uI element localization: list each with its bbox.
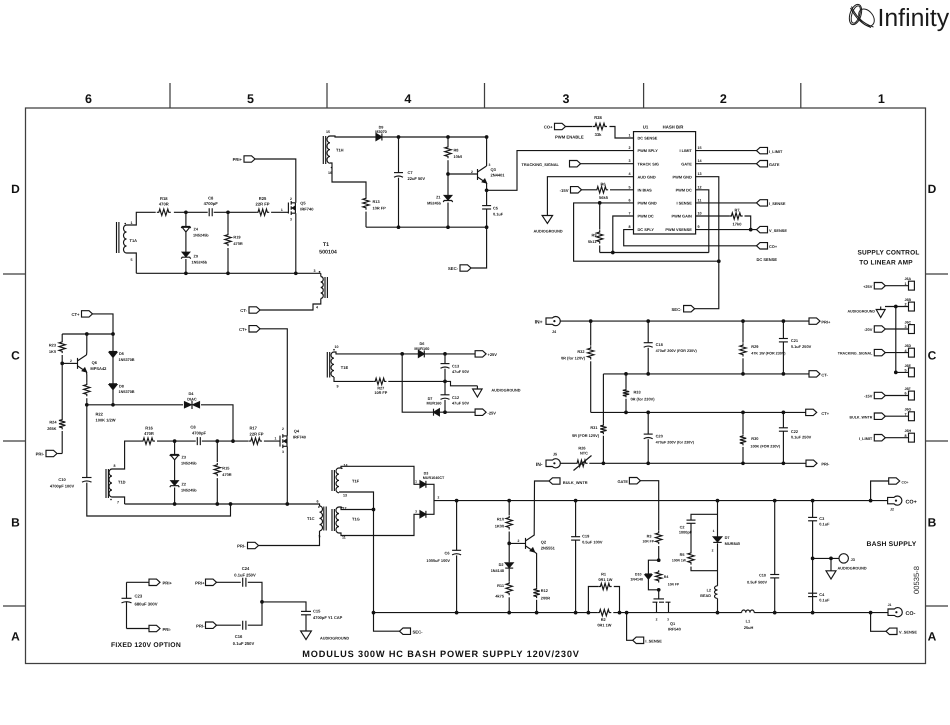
diode D7 MUR160	[434, 409, 440, 416]
svg-text:16: 16	[328, 171, 332, 175]
svg-text:GATE: GATE	[769, 162, 780, 167]
transformer winding T1F	[336, 468, 339, 493]
zener Z4 1N5245b	[185, 212, 187, 226]
svg-text:J6E: J6E	[905, 364, 912, 368]
svg-text:4k75: 4k75	[495, 594, 504, 599]
svg-text:R30: R30	[751, 436, 758, 441]
svg-text:PRI+: PRI+	[821, 320, 831, 325]
wire R10 to Q2 base	[509, 542, 525, 544]
svg-text:5: 5	[131, 258, 133, 262]
svg-text:3: 3	[290, 217, 292, 221]
doubler bus 1	[603, 373, 809, 375]
svg-text:-25V: -25V	[488, 410, 497, 415]
capacitor C6 1000uF 100V	[456, 501, 458, 551]
svg-text:PRI-: PRI-	[821, 462, 830, 467]
connector J6G	[909, 412, 915, 421]
svg-text:BEAD: BEAD	[700, 594, 711, 598]
svg-text:C2: C2	[680, 526, 685, 530]
connector tag I_SENSE (U1)	[757, 200, 768, 206]
diode D9 M3070	[376, 134, 382, 141]
capacitor C19 0.5uF 100V	[575, 501, 577, 537]
svg-text:I_LIMIT: I_LIMIT	[859, 436, 873, 441]
svg-text:7: 7	[628, 212, 630, 216]
MOSFET Q4 IRF740	[279, 436, 281, 447]
svg-text:C23: C23	[135, 594, 143, 599]
svg-text:22uF 50V: 22uF 50V	[408, 176, 426, 181]
wire R6 to U1 pin5	[610, 189, 634, 191]
svg-text:1: 1	[131, 221, 133, 225]
resistor R16 470R	[141, 438, 155, 444]
svg-text:12: 12	[698, 185, 702, 189]
border frame	[3, 83, 948, 664]
svg-text:J6A: J6A	[905, 277, 912, 281]
resistor R9 5k11	[599, 203, 601, 230]
wire R18 to C8	[174, 211, 208, 213]
wire R17 to Q4 gate	[264, 440, 280, 442]
svg-text:C: C	[928, 349, 937, 363]
svg-text:AUDIOGROUND: AUDIOGROUND	[847, 310, 875, 314]
connector tag V_SENSE (U1)	[757, 226, 768, 232]
svg-text:MUR160: MUR160	[427, 402, 442, 406]
svg-text:SUPPLY CONTROL: SUPPLY CONTROL	[857, 250, 919, 257]
svg-text:CT+: CT+	[239, 327, 248, 332]
svg-text:T1H: T1H	[336, 148, 344, 153]
connector tag CT+ to Q4 drain	[249, 326, 260, 332]
svg-text:PWM GND: PWM GND	[673, 174, 692, 179]
wire U1 pin15 to I_LIMIT	[696, 150, 757, 152]
svg-text:2N4401: 2N4401	[491, 173, 506, 178]
svg-text:GATE: GATE	[681, 161, 692, 166]
svg-text:CO-: CO-	[906, 611, 916, 617]
svg-text:0.1uF: 0.1uF	[819, 522, 830, 527]
wire R25 to Q5 gate	[271, 211, 288, 213]
connector J1 CO-	[869, 611, 873, 615]
svg-text:SEC-: SEC-	[413, 629, 424, 634]
svg-text:PRI-: PRI-	[237, 544, 246, 549]
svg-text:4700pF 100V: 4700pF 100V	[50, 483, 75, 488]
svg-text:CO+: CO+	[902, 480, 909, 484]
resistor R33 0R	[625, 374, 627, 389]
connector tag CO+ (PWM enable)	[555, 123, 566, 129]
capacitor C8 4700pF	[209, 208, 212, 216]
resistor R17 22R FP	[249, 438, 262, 444]
connector tag I_SENSE (rail)	[633, 637, 644, 643]
resistor R23 1K0	[61, 334, 63, 340]
connector tag PRI- (option)	[149, 625, 160, 631]
connector tag -20V	[874, 326, 885, 332]
svg-text:Z1: Z1	[436, 196, 440, 200]
resistor R25 22R FP	[256, 209, 269, 215]
diode D8 1N5370B	[109, 383, 117, 385]
connector tag BULK_WNTR	[874, 413, 885, 419]
ground audioground (J6B)	[880, 307, 882, 310]
svg-text:J6D: J6D	[905, 344, 912, 348]
svg-text:0R1 1W: 0R1 1W	[597, 623, 611, 628]
svg-text:R5: R5	[680, 553, 685, 557]
svg-text:1: 1	[713, 529, 715, 533]
wire C8 to R25	[214, 211, 256, 213]
svg-text:10: 10	[335, 345, 339, 349]
svg-text:MUR160: MUR160	[414, 347, 429, 351]
resistor R29 47K 1W	[742, 321, 744, 343]
svg-text:BULK_WNTR: BULK_WNTR	[563, 480, 588, 485]
svg-text:0.1uF 250V: 0.1uF 250V	[791, 435, 812, 440]
svg-text:10R FP: 10R FP	[373, 206, 387, 211]
wire BULK_WNTR to J6G	[885, 415, 908, 417]
svg-text:AUDIOGROUND: AUDIOGROUND	[320, 636, 349, 640]
svg-text:C10: C10	[58, 477, 66, 482]
svg-text:D9: D9	[379, 126, 384, 130]
svg-text:R17: R17	[249, 426, 257, 431]
connector J2 CO+	[871, 500, 888, 502]
wire PRI- to C16	[217, 624, 241, 626]
svg-text:R28: R28	[594, 115, 602, 120]
resistor R11 4k75	[506, 581, 512, 595]
svg-text:R19: R19	[233, 234, 241, 239]
svg-text:Q4: Q4	[294, 428, 300, 433]
svg-text:C24: C24	[242, 566, 250, 571]
svg-text:CT+: CT+	[821, 411, 829, 416]
wire R27 to audioground node	[388, 380, 445, 382]
svg-text:BASH SUPPLY: BASH SUPPLY	[867, 541, 917, 548]
svg-text:PRI+: PRI+	[195, 581, 205, 586]
wire IN- line	[589, 462, 806, 464]
svg-text:TO LINEAR AMP: TO LINEAR AMP	[859, 260, 913, 267]
svg-text:TRACKING_SIGNAL: TRACKING_SIGNAL	[838, 352, 873, 356]
capacitor C24 0.1uF 250V	[243, 578, 246, 587]
svg-text:T1: T1	[323, 242, 329, 248]
svg-text:U1: U1	[643, 125, 649, 130]
wire T1F pin14 to D3	[339, 466, 420, 484]
svg-text:D7: D7	[428, 397, 433, 401]
svg-text:Q2: Q2	[541, 540, 547, 545]
svg-text:2: 2	[518, 539, 520, 543]
svg-text:1N5370B: 1N5370B	[119, 358, 135, 362]
connector J4 IN+	[546, 317, 560, 326]
wire Q2 collector to BULK_WNTR	[534, 481, 549, 535]
connector tag -15V	[874, 392, 885, 398]
wire Q4 source to rail	[286, 446, 288, 504]
svg-text:2: 2	[628, 146, 630, 150]
svg-text:J6F: J6F	[905, 387, 912, 391]
wire R7 to pin9 net	[745, 216, 751, 230]
wire T1G pin12 center tap	[339, 507, 374, 510]
wire TRACKING_SIGNAL to J6D	[885, 352, 908, 354]
svg-text:1N5245b: 1N5245b	[181, 461, 197, 465]
connector tag PRI- (row C left)	[46, 450, 57, 456]
svg-text:1: 1	[281, 208, 283, 212]
svg-text:C13: C13	[452, 363, 460, 368]
bottom rail row D	[136, 272, 320, 274]
resistor R4 10R FP (gate)	[656, 570, 662, 582]
wire T1C pin5 to PRI-	[259, 531, 320, 546]
resistor R32 0R	[590, 321, 592, 346]
svg-text:IN-: IN-	[536, 462, 543, 468]
resistor R10 1K00	[508, 501, 510, 515]
svg-text:500104: 500104	[319, 250, 337, 256]
capacitor C8 4700pF (row B)	[197, 437, 200, 445]
svg-text:2: 2	[720, 92, 727, 106]
svg-text:PRI-: PRI-	[36, 452, 45, 457]
svg-text:C12: C12	[452, 395, 460, 400]
connector tag PRI+ (option)	[149, 579, 160, 585]
svg-text:R25: R25	[259, 196, 267, 201]
resistor R27 10R FP	[373, 378, 386, 384]
svg-text:L2: L2	[707, 588, 711, 592]
svg-text:IRF740: IRF740	[293, 434, 307, 439]
svg-text:AUD GND: AUD GND	[638, 174, 656, 179]
wire T1A pin5 to bottom rail	[127, 253, 137, 273]
wire CT+ down to Q4 drain	[260, 329, 287, 430]
svg-text:0.1uF 250V: 0.1uF 250V	[233, 641, 255, 646]
svg-text:4700pF: 4700pF	[204, 201, 219, 206]
svg-text:PWM DC: PWM DC	[638, 214, 654, 219]
wire U1 pin3 to TRACKING_SIGNAL	[581, 163, 634, 165]
ground audioground (C15)	[301, 631, 312, 640]
wire IN+ line	[561, 320, 810, 322]
svg-text:IRF740: IRF740	[300, 207, 314, 212]
svg-text:100K (FOR 230V): 100K (FOR 230V)	[750, 445, 780, 449]
svg-text:11: 11	[698, 198, 702, 202]
svg-text:-15V: -15V	[560, 188, 569, 193]
svg-text:10R FP: 10R FP	[668, 583, 680, 587]
svg-text:1N4148: 1N4148	[630, 577, 643, 581]
svg-text:3: 3	[563, 92, 570, 106]
capacitor C16 0.1uF 250V	[243, 621, 246, 630]
connector tag SEC- (U1)	[684, 306, 695, 312]
diode D2 1N4148	[508, 543, 510, 562]
svg-text:3: 3	[415, 509, 417, 513]
svg-text:0R (for 120V): 0R (for 120V)	[561, 356, 586, 361]
ground audioground (J3)	[830, 558, 832, 570]
svg-text:R8: R8	[454, 148, 460, 153]
zener Z2 1N5245b	[174, 460, 176, 481]
svg-text:PWM GAIN: PWM GAIN	[671, 214, 692, 219]
svg-text:T1E: T1E	[341, 365, 349, 370]
svg-text:R32: R32	[577, 349, 585, 354]
op-amp/controller U1 HASH B/R	[634, 132, 696, 234]
wire C24 to junction	[248, 582, 262, 602]
svg-text:M5245b: M5245b	[427, 202, 442, 206]
svg-text:CO+: CO+	[906, 500, 917, 506]
svg-text:47K 1W (FOR 230V): 47K 1W (FOR 230V)	[751, 352, 786, 356]
svg-text:00535-8: 00535-8	[912, 566, 921, 594]
svg-text:A: A	[928, 630, 937, 644]
svg-text:C8: C8	[208, 196, 214, 201]
wire Q4 drain	[286, 430, 288, 436]
wire D6 to +25V	[424, 353, 475, 355]
connector tag -15V	[571, 187, 582, 193]
svg-text:R4: R4	[664, 575, 669, 579]
svg-text:1N5370B: 1N5370B	[119, 390, 135, 394]
svg-text:C20: C20	[656, 433, 663, 438]
svg-text:0R (for 230V): 0R (for 230V)	[631, 396, 656, 401]
wire U1 pin10 to R7	[696, 215, 730, 217]
svg-text:DIAC: DIAC	[187, 397, 197, 402]
svg-text:D6: D6	[419, 342, 424, 346]
transformer winding T1D	[106, 469, 108, 498]
MOSFET Q1 IRF540	[658, 590, 660, 599]
svg-text:PWM GND: PWM GND	[638, 201, 657, 206]
svg-text:R9: R9	[592, 232, 598, 237]
connector J6H	[909, 433, 915, 442]
Infinity logo	[847, 3, 877, 29]
transformer winding T1C	[318, 504, 320, 506]
wire to J3 audioground	[813, 557, 839, 559]
svg-text:1N5245b: 1N5245b	[192, 261, 208, 265]
transformer winding T1H	[323, 136, 325, 164]
MOSFET Q5 IRF740	[287, 203, 289, 214]
svg-text:R16: R16	[145, 426, 153, 431]
svg-text:T1D: T1D	[118, 480, 126, 485]
svg-text:0R (FOR 120V): 0R (FOR 120V)	[572, 433, 600, 438]
wire CO+ to R28	[566, 126, 593, 128]
svg-text:J1: J1	[888, 603, 892, 607]
svg-text:R11: R11	[497, 583, 505, 588]
svg-text:25uH: 25uH	[744, 625, 754, 630]
svg-text:J6H: J6H	[905, 429, 912, 433]
transistor Q2 2N5551	[525, 538, 527, 549]
svg-text:J6B: J6B	[905, 298, 912, 302]
svg-text:D8: D8	[119, 384, 124, 388]
svg-text:C3: C3	[819, 516, 825, 521]
svg-text:T1C: T1C	[307, 516, 315, 521]
capacitor C20 470uF 200V	[647, 412, 649, 434]
wire CT+ to D5 column	[93, 314, 114, 334]
svg-text:Q5: Q5	[300, 201, 306, 206]
connector tag +25V	[874, 283, 885, 289]
wire C23 to PRI-	[127, 628, 150, 630]
wire SEC- stub (rail)	[374, 613, 400, 632]
svg-text:1K0: 1K0	[49, 349, 56, 354]
svg-text:AUDIOGROUND: AUDIOGROUND	[491, 388, 520, 392]
connector tag TRACKING_SIGNAL (U1)	[570, 161, 581, 167]
svg-text:2: 2	[290, 197, 292, 201]
svg-text:R3: R3	[647, 534, 652, 538]
svg-text:I SENSE: I SENSE	[676, 201, 692, 206]
svg-text:C4: C4	[819, 592, 825, 597]
dual diode D3 MUR1640CT	[420, 481, 426, 488]
svg-text:10k0: 10k0	[454, 154, 463, 159]
bottom rail of T1H block	[366, 226, 487, 228]
svg-text:NTC: NTC	[580, 450, 588, 455]
svg-text:C8: C8	[190, 424, 196, 429]
svg-text:2: 2	[282, 427, 284, 431]
resistor R3 10R FP	[656, 531, 662, 544]
svg-text:PWM VSENSE: PWM VSENSE	[665, 227, 692, 232]
connector tag V_SENSE (output)	[886, 628, 897, 634]
wire U1 pin7 to PWM DC bus	[613, 216, 634, 253]
svg-text:0.1uF 250V: 0.1uF 250V	[234, 573, 256, 578]
connector tag TRACKING_SIGNAL	[874, 349, 885, 355]
svg-text:0.1uF: 0.1uF	[819, 598, 830, 603]
wire R28 to U1 pin1	[610, 127, 634, 139]
connector J5 IN-	[546, 459, 560, 468]
wire junction to C15	[262, 602, 306, 612]
svg-text:A: A	[11, 630, 20, 644]
svg-text:0.5uF 100V: 0.5uF 100V	[582, 539, 603, 544]
svg-text:6: 6	[317, 500, 319, 504]
resistor R28 33k	[593, 123, 607, 129]
svg-text:R2: R2	[601, 617, 607, 622]
wire T1D pin8 to R16	[112, 441, 141, 469]
wire U1 pin6 net	[574, 203, 720, 261]
svg-text:15: 15	[326, 130, 330, 134]
capacitor C10 4700pF 100V	[86, 405, 88, 478]
wire T1E pin10 branch to D7	[402, 354, 433, 412]
capacitor C21 0.1uF 250V	[782, 321, 784, 338]
svg-text:200R: 200R	[541, 596, 550, 601]
svg-text:I_SENSE: I_SENSE	[645, 639, 662, 644]
resistor R22 100K 1/2W	[84, 383, 90, 397]
connector J6C	[909, 325, 915, 334]
wire T1D pin7 to rail	[112, 497, 125, 504]
svg-text:CT-: CT-	[240, 308, 247, 313]
resistor R7 17k0	[730, 213, 743, 219]
resistor R15 470R	[216, 441, 218, 462]
zener Z3 1N5245b	[174, 441, 176, 454]
resistor R6 56k5	[595, 187, 608, 193]
transformer winding T1G	[336, 507, 339, 533]
connector J6D	[909, 348, 915, 357]
svg-text:+25V: +25V	[488, 352, 498, 357]
connector tag I_LIMIT (U1)	[757, 147, 768, 153]
svg-text:265K: 265K	[47, 426, 56, 431]
capacitor C15 4700pF Y1 CAP	[301, 610, 311, 612]
svg-text:R7: R7	[734, 207, 740, 212]
wire I_SENSE stub	[627, 613, 633, 641]
wire T1H pin15 to D9	[330, 136, 376, 137]
svg-text:T1F: T1F	[352, 479, 360, 484]
svg-text:J2: J2	[890, 508, 894, 512]
connector tag CT- (bus1)	[809, 371, 820, 377]
svg-text:5: 5	[628, 185, 630, 189]
svg-text:D2: D2	[499, 563, 504, 567]
svg-text:B: B	[11, 516, 20, 530]
svg-text:Z2: Z2	[182, 482, 186, 486]
svg-text:8: 8	[114, 464, 116, 468]
svg-text:R13: R13	[373, 199, 381, 204]
svg-text:470R: 470R	[222, 472, 231, 477]
svg-text:8: 8	[628, 225, 630, 229]
svg-text:6: 6	[628, 198, 630, 202]
svg-text:J6C: J6C	[905, 320, 912, 324]
connector J6F	[909, 391, 915, 400]
svg-text:J5: J5	[553, 453, 557, 457]
snubber resistor R5 100R 1W	[688, 551, 694, 565]
svg-text:MUR1640CT: MUR1640CT	[423, 476, 445, 480]
connector tag PRI+ (IN+ line)	[809, 318, 820, 324]
svg-text:R27: R27	[377, 386, 384, 390]
svg-text:2N5551: 2N5551	[541, 546, 556, 551]
wire GATE to R3	[640, 481, 658, 531]
svg-text:I LIMIT: I LIMIT	[679, 148, 692, 153]
connector tag +25V	[475, 351, 486, 357]
svg-text:0R1 1W: 0R1 1W	[598, 577, 612, 582]
wire -20V to J6C	[885, 328, 908, 330]
diode D7 MUR840	[717, 501, 719, 537]
svg-text:4700pF: 4700pF	[192, 430, 207, 435]
wire PWM DC bus (pin7-pin12)	[600, 252, 709, 254]
transformer core T1 secondary	[332, 470, 334, 491]
svg-text:PRI-: PRI-	[196, 624, 205, 629]
svg-text:C15: C15	[313, 608, 321, 613]
connector tag GATE (U1)	[757, 161, 768, 167]
zener Z1 M5245b	[447, 174, 449, 195]
connector tag SEC- (rail)	[400, 628, 411, 634]
svg-text:1K00: 1K00	[495, 523, 504, 528]
svg-text:2: 2	[471, 170, 473, 174]
